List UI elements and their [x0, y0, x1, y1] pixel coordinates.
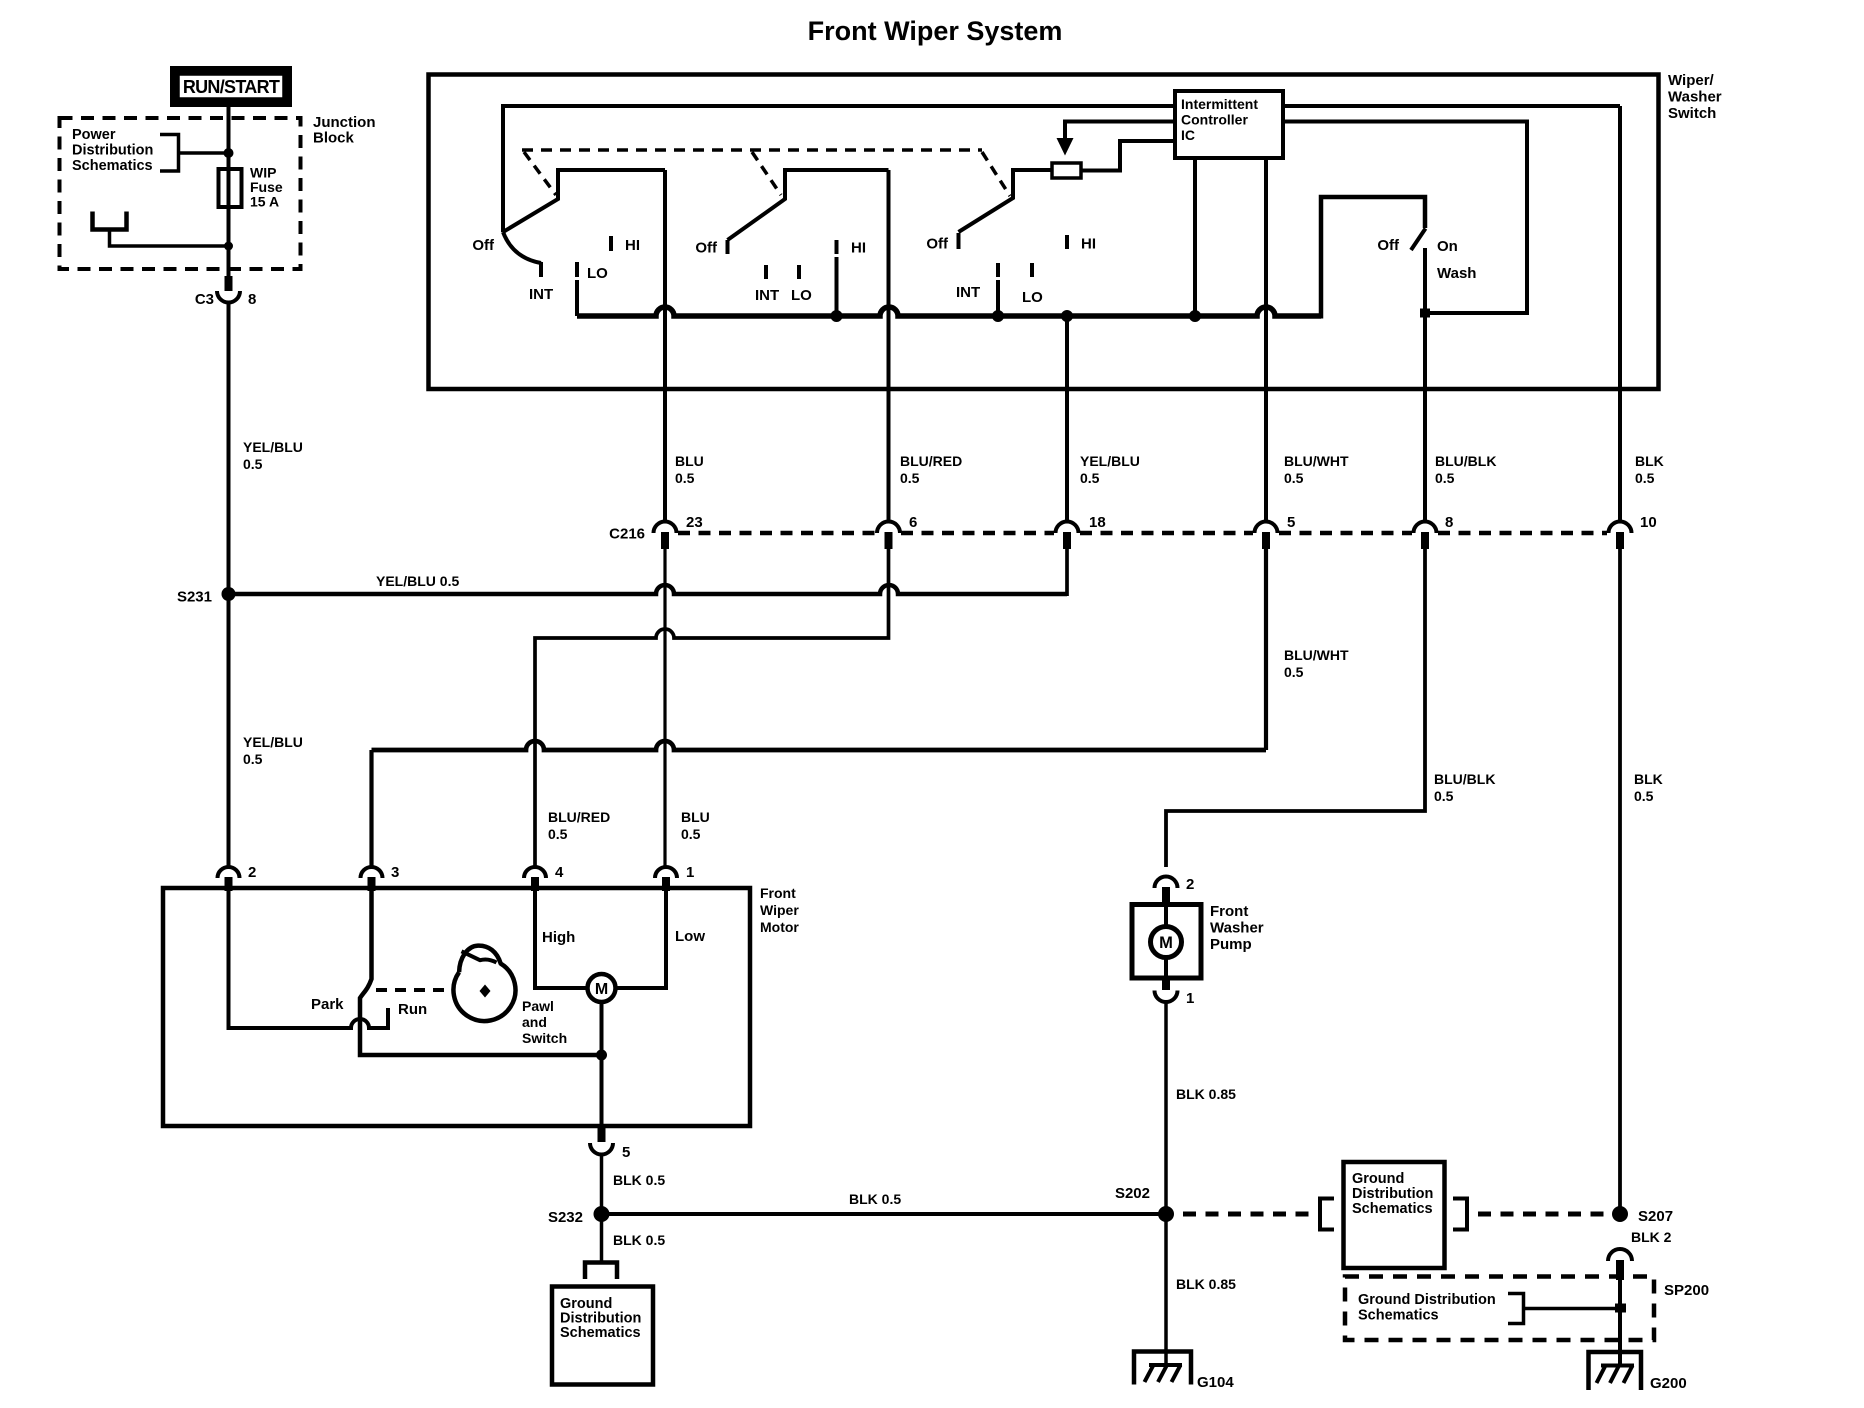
INT contact wafer 3: [996, 263, 1000, 277]
svg-text:G200: G200: [1650, 1375, 1687, 1392]
wiper switch wafer 2 (low speed): [695, 170, 888, 316]
svg-text:8: 8: [1445, 514, 1453, 531]
washer switch On contact wire down to junction: [1423, 248, 1427, 313]
wire YEL/BLU 0.5 from S231 to C216 pin 18 (bumps over BLU and BLU/RED wires): [229, 585, 1068, 594]
svg-text:23: 23: [686, 514, 703, 531]
half connector to ground distribution: [585, 1263, 617, 1280]
connector pin 2 at washer pump: [1155, 876, 1195, 905]
node: bus junction at wafer 3 INT contact: [992, 310, 1004, 322]
connector pin 5 below motor: [590, 1126, 630, 1161]
connector C216 dashed harness line: [678, 531, 876, 536]
dashed mechanical linkage between wiper switch wafers: [522, 150, 1010, 196]
wire YEL/BLU 0.5 from S231 down to motor pin 2: [227, 594, 231, 867]
svg-text:1: 1: [1186, 990, 1194, 1007]
Ground Distribution Schematics reference inside SP200: [1358, 1292, 1620, 1324]
wire: motor High winding from pin 4: [535, 891, 588, 988]
dashed wire ground distribution box to S207: [1478, 1212, 1606, 1217]
wire: S232 down to ground distribution: [600, 1214, 604, 1261]
HI contact wafer 1: [609, 236, 613, 251]
connector pin 4 at motor: [524, 864, 564, 891]
wire: IC output down to C216 pin 5: [1264, 158, 1268, 522]
wire: bus to C216 pin 18: [1065, 316, 1069, 522]
wire BLU 0.5 from C216 pin 23 to motor pin 1: [663, 549, 666, 867]
Power Distribution Schematics reference: [72, 127, 179, 174]
svg-text:2: 2: [1186, 876, 1194, 893]
svg-text:FrontWiperMotor: FrontWiperMotor: [760, 885, 799, 935]
connector C216 pin 5: [1255, 514, 1296, 549]
Off contact wafer 3: [957, 233, 961, 249]
node: junction dot above fuse: [224, 148, 234, 158]
svg-text:HI: HI: [851, 240, 866, 257]
motor M symbol: [588, 974, 616, 1002]
switch arm wafer 1: [503, 170, 665, 232]
svg-text:S202: S202: [1115, 1185, 1150, 1202]
Wiper/Washer Switch enclosure: [429, 75, 1659, 390]
svg-text:18: 18: [1089, 514, 1106, 531]
connector C216 pin 18: [1056, 514, 1106, 549]
svg-text:SP200: SP200: [1664, 1282, 1709, 1299]
half connector bracket left of ground distribution box: [1320, 1199, 1334, 1230]
Front Washer Pump enclosure: [1132, 905, 1201, 979]
connector C3 pin 8: [195, 276, 257, 308]
wire BLK 0.85 from S202 to G104: [1164, 1214, 1168, 1365]
connector C216 pin 8: [1414, 514, 1454, 549]
svg-text:5: 5: [1287, 514, 1295, 531]
stub connector to other junction block circuits: [93, 212, 229, 247]
wire: resistor to intermittent controller: [1081, 141, 1175, 171]
arrow from intermittent controller to resistor: [1057, 122, 1176, 156]
park switch arm from pin 3: [360, 891, 602, 1055]
svg-text:C216: C216: [609, 526, 645, 543]
Ground Distribution Schematics box (S232): [552, 1287, 653, 1385]
node: washer switch output junction: [1420, 309, 1430, 318]
svg-text:Wash: Wash: [1437, 265, 1476, 282]
wire: motor common to junction: [600, 1002, 604, 1055]
node: SP200 junction on BLK 2 wire: [1615, 1304, 1626, 1313]
Junction Block dashed enclosure: [60, 118, 301, 269]
wire BLK 2 from connector to G200: [1618, 1280, 1622, 1365]
svg-text:M: M: [1159, 934, 1173, 952]
svg-text:Run: Run: [398, 1001, 427, 1018]
wire BLK 0.85 from pump pin 1 to S202: [1164, 1002, 1168, 1214]
svg-text:Park: Park: [311, 996, 344, 1013]
switch arm wafer 2: [728, 170, 889, 240]
LO contact wafer 1: [575, 262, 579, 277]
svg-text:4: 4: [555, 864, 564, 881]
svg-text:C3: C3: [195, 291, 214, 308]
wire BLK 0.5 from motor pin 5 to S232: [600, 1155, 604, 1215]
wire: motor Low winding from pin 1: [616, 891, 667, 988]
connector C216 pin 23: [654, 514, 703, 549]
LO contact wafer 3: [1030, 263, 1034, 277]
svg-text:6: 6: [909, 514, 917, 531]
svg-text:S207: S207: [1638, 1208, 1673, 1225]
wire BLK 0.5 ground bus S232 to S202: [602, 1212, 1167, 1216]
svg-text:RUN/START: RUN/START: [183, 77, 280, 97]
wire BLU/RED 0.5 from wafer 2 output down to C216 pin 6: [887, 170, 891, 522]
wire: motor common to pin 5: [600, 1055, 604, 1126]
dashed wire S202 to ground distribution box: [1183, 1212, 1312, 1217]
svg-text:BLK 0.5: BLK 0.5: [849, 1191, 901, 1207]
wire: IC output to bus: [1193, 158, 1197, 316]
ground G200: [1589, 1352, 1687, 1392]
Ground Distribution Schematics box (S202-S207 run): [1344, 1162, 1445, 1268]
RUN/START power feed box: [174, 70, 288, 103]
INT contact wafer 2: [764, 265, 768, 279]
wire: switch feed bus along top of switch: [503, 106, 1620, 232]
svg-text:8: 8: [248, 291, 256, 308]
wire: washer switch output down to C216 pin 8: [1423, 313, 1427, 522]
wiper switch wafer 1 (park feed): [472, 170, 665, 303]
node: IC to bus junction: [1189, 310, 1201, 322]
wire: wafer 3 INT contact to bus: [996, 280, 1000, 316]
svg-text:Off: Off: [472, 237, 495, 254]
svg-text:INT: INT: [755, 287, 779, 304]
svg-text:HI: HI: [625, 237, 640, 254]
ground G104: [1134, 1352, 1234, 1392]
wire: wafer 2 HI contact to bus: [835, 257, 839, 316]
svg-text:BLK 0.85: BLK 0.85: [1176, 1276, 1236, 1292]
wire BLU 0.5 from wafer 1 output down to C216 pin 23: [663, 170, 667, 522]
switch common bus: [575, 280, 579, 316]
wire BLK 0.5 from C216 pin 10 down to S207: [1618, 549, 1622, 1214]
svg-text:10: 10: [1640, 514, 1657, 531]
LO contact wafer 2: [797, 265, 801, 279]
svg-text:Low: Low: [675, 928, 705, 945]
svg-text:HI: HI: [1081, 236, 1096, 253]
wire BLU/RED 0.5 from C216 pin 6 to motor pin 4 (bump over BLU wire): [535, 549, 889, 867]
half connector bracket right of ground distribution box: [1453, 1199, 1467, 1230]
washer pump motor M symbol: [1151, 905, 1182, 979]
svg-text:Front Wiper System: Front Wiper System: [808, 16, 1063, 46]
Intermittent Controller IC: [1175, 91, 1283, 158]
Off contact wafer 2: [726, 240, 730, 254]
svg-text:Off: Off: [1377, 237, 1400, 254]
svg-text:High: High: [542, 929, 575, 946]
svg-text:G104: G104: [1197, 1374, 1234, 1391]
wire BLU/BLK 0.5 from C216 pin 8 to washer pump pin 2: [1166, 549, 1425, 867]
svg-text:On: On: [1437, 238, 1458, 255]
INT contact wafer 1: [539, 262, 543, 277]
washer switch blade: [1411, 229, 1426, 251]
wire: washer switch junction to IC wash input: [1283, 122, 1527, 314]
svg-text:BLK 0.5: BLK 0.5: [613, 1232, 665, 1248]
svg-text:LO: LO: [1022, 289, 1043, 306]
svg-text:LO: LO: [791, 287, 812, 304]
svg-text:Off: Off: [695, 240, 718, 257]
splice S202: [1158, 1206, 1174, 1222]
wire: RUN/START down through fuse to C3: [227, 103, 231, 276]
svg-text:BLK 0.5: BLK 0.5: [613, 1172, 665, 1188]
Front Wiper Motor enclosure: [163, 888, 750, 1126]
pawl cam: [453, 946, 515, 1021]
splice S207: [1612, 1206, 1628, 1222]
node: motor common junction: [596, 1050, 607, 1061]
svg-text:LO: LO: [587, 265, 608, 282]
svg-text:3: 3: [391, 864, 399, 881]
wire BLK to C216 pin 10: [1618, 106, 1622, 522]
connector pin 2 at motor: [218, 864, 257, 891]
svg-text:Off: Off: [926, 236, 949, 253]
resistor (intermittent delay): [1052, 163, 1081, 178]
dashed mechanical link to pawl: [376, 988, 453, 992]
wiping arc wafer 1: [503, 232, 541, 263]
splice pack SP200 dashed box: [1345, 1277, 1654, 1341]
connector pin 3 at motor: [361, 864, 400, 891]
HI contact wafer 2: [835, 240, 839, 254]
svg-text:S232: S232: [548, 1209, 583, 1226]
svg-text:S231: S231: [177, 589, 212, 606]
svg-text:BLK 0.85: BLK 0.85: [1176, 1086, 1236, 1102]
svg-text:1: 1: [686, 864, 694, 881]
svg-text:2: 2: [248, 864, 256, 881]
wire BLU/WHT 0.5 from C216 pin 5 to motor pin 3 (bumps over BLU/RED and BLU wires): [1264, 549, 1268, 750]
node: bus junction at wafer 2 HI contact: [831, 310, 843, 322]
node: bus junction at pin 18 wire: [1061, 310, 1073, 322]
svg-text:BLK 2: BLK 2: [1631, 1229, 1672, 1245]
switch arm wafer 3: [959, 170, 1053, 232]
splice S232: [594, 1206, 610, 1222]
svg-text:INT: INT: [529, 286, 553, 303]
wire from power distribution bracket to fuse feed: [179, 151, 229, 155]
svg-text:M: M: [595, 981, 608, 998]
svg-text:INT: INT: [956, 284, 980, 301]
svg-text:YEL/BLU 0.5: YEL/BLU 0.5: [376, 573, 459, 589]
connector C216 pin 6: [877, 514, 917, 549]
connector pin 1 at motor: [655, 864, 694, 891]
fuse WIP 15 A: [219, 165, 283, 210]
wire: park switch run contact feed (from pin 2, bump over park arm): [229, 891, 389, 1028]
svg-text:5: 5: [622, 1144, 630, 1161]
connector below S207: [1608, 1249, 1632, 1280]
wiper switch wafer 3 (intermittent): [926, 170, 1096, 316]
splice S231: [222, 587, 236, 601]
connector pin 1 below washer pump: [1155, 979, 1195, 1008]
wire: bus to washer switch feed: [1321, 197, 1425, 319]
node: junction dot below fuse: [224, 242, 233, 251]
wire YEL/BLU 0.5 from C3 down to S231: [227, 303, 231, 595]
HI contact wafer 3: [1065, 235, 1069, 249]
connector C216 pin 10: [1609, 514, 1657, 549]
